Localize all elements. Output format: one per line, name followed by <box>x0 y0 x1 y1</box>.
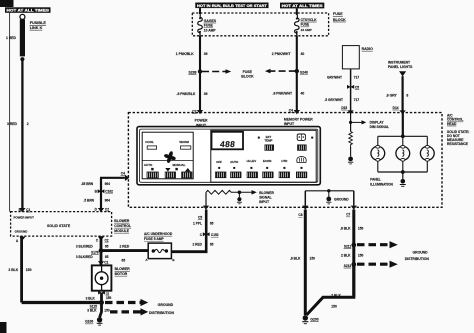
wire label .35 BRN 964 <box>81 182 110 186</box>
svg-text:ILLUMINATION: ILLUMINATION <box>370 183 393 187</box>
svg-text:39: 39 <box>204 92 208 96</box>
svg-text:150: 150 <box>310 256 316 260</box>
svg-text:AUTO: AUTO <box>230 160 239 164</box>
ctsy/clk fuse element <box>295 15 318 36</box>
svg-text:3 BLK: 3 BLK <box>8 268 18 272</box>
svg-text:.35 BRN: .35 BRN <box>81 182 94 186</box>
svg-text:964: 964 <box>105 182 111 186</box>
svg-text:BLOCK: BLOCK <box>333 18 346 22</box>
button defrost <box>296 172 306 178</box>
svg-text:BLOWER: BLOWER <box>259 191 274 195</box>
splice S213 <box>344 262 356 268</box>
svg-text:POWER INPUT: POWER INPUT <box>14 215 35 219</box>
svg-text:FUSE 5 AMP: FUSE 5 AMP <box>144 237 164 241</box>
svg-text:OFF: OFF <box>216 160 222 164</box>
svg-text:D14: D14 <box>393 106 399 110</box>
svg-text:SOLID STATE: SOLID STATE <box>47 224 71 228</box>
svg-text:2: 2 <box>27 122 29 126</box>
fuse block label (top right) <box>333 12 346 22</box>
lamp E3 (right illumination bulb) <box>420 136 434 172</box>
pin A of module (ground) <box>16 237 26 243</box>
fan down triangle <box>165 168 170 172</box>
label A/C UNDERHOOD FUSE 5 AMP <box>144 232 173 241</box>
svg-text:C7: C7 <box>346 213 350 217</box>
pin C8 of A/C control head <box>298 206 308 218</box>
F/C selector icon <box>297 134 305 140</box>
internal ground symbol <box>326 191 331 204</box>
svg-text:RESISTANCE: RESISTANCE <box>447 142 469 146</box>
defrost icon <box>297 157 306 163</box>
svg-text:C4: C4 <box>121 171 125 175</box>
svg-text:2 RED: 2 RED <box>193 242 203 246</box>
wire label .8 GRY 8 <box>386 94 409 98</box>
svg-text:150: 150 <box>106 296 112 300</box>
illumination ground symbol <box>400 172 406 186</box>
svg-text:DISTRIBUTION: DISTRIBUTION <box>149 311 174 315</box>
svg-text:GROUND: GROUND <box>334 198 349 202</box>
svg-text:1 PNK/BLK: 1 PNK/BLK <box>176 52 194 56</box>
wire label .5 BRN 964 <box>84 198 111 202</box>
svg-text:2 PNK/WHT: 2 PNK/WHT <box>272 52 292 56</box>
svg-text:FUSE: FUSE <box>333 12 343 16</box>
connector C5 (radio lead) <box>347 85 359 89</box>
wire: module ground bus horizontal <box>22 301 102 304</box>
illumination top bus wire <box>378 135 428 137</box>
ground distribution arrow 3 <box>357 241 398 248</box>
pin C1 of blower motor <box>98 261 109 266</box>
svg-text:INSTRUMENT: INSTRUMENT <box>388 60 411 64</box>
button htr <box>279 172 289 178</box>
svg-text:FUSE: FUSE <box>243 70 253 74</box>
svg-text:DISPLAY: DISPLAY <box>370 121 385 125</box>
fuse block center text <box>241 70 254 79</box>
button hi-lev <box>247 172 257 178</box>
svg-text:Hi-LEV: Hi-LEV <box>247 159 257 163</box>
wire stub banner3 to fuse block <box>296 8 298 15</box>
svg-text:HOT IN RUN, BULB TEST OR START: HOT IN RUN, BULB TEST OR START <box>197 4 268 8</box>
dim signal resistor <box>349 132 353 147</box>
wire: ctsy fuse down to A/C control head C4 <box>296 36 298 113</box>
svg-text:C5: C5 <box>355 85 359 89</box>
wire label 3 RED circuit 2 <box>7 122 29 126</box>
svg-text:HEAD: HEAD <box>447 122 457 126</box>
svg-text:S211: S211 <box>344 244 351 248</box>
svg-text:65: 65 <box>210 221 214 225</box>
ground G106 <box>85 317 102 325</box>
svg-text:65: 65 <box>105 244 109 248</box>
wire: head C7 down <box>352 210 355 298</box>
svg-text:16 AMP: 16 AMP <box>301 28 312 32</box>
svg-text:MEMORY POWER: MEMORY POWER <box>284 117 313 121</box>
svg-text:.8 BLK: .8 BLK <box>290 256 301 260</box>
wire: head C8 down to G200 <box>304 210 307 316</box>
button econ <box>263 172 273 178</box>
A/C underhood fuse box <box>145 243 175 262</box>
label GROUND DISTRIBUTION (right) <box>405 250 430 261</box>
svg-text:8: 8 <box>406 94 408 98</box>
svg-text:488: 488 <box>220 139 236 149</box>
fusible link K <box>20 14 47 61</box>
blower signal junction node <box>238 191 242 195</box>
svg-text:POWER: POWER <box>195 119 208 123</box>
wire: fuse to C152 riser <box>171 250 207 253</box>
label DISPLAY DIM SIGNAL <box>370 121 389 130</box>
fan control sub-panel <box>142 132 193 179</box>
wire label .5 GRY/WHT 717 <box>325 98 360 102</box>
illumination ground node <box>401 170 405 174</box>
svg-text:.8 PNK/WHT: .8 PNK/WHT <box>273 91 294 95</box>
wire: S115 down to G106 <box>100 303 102 318</box>
svg-text:S238: S238 <box>188 70 196 74</box>
svg-text:GROUND: GROUND <box>413 250 429 254</box>
svg-text:150: 150 <box>358 226 364 230</box>
svg-text:CONTROL: CONTROL <box>114 224 131 228</box>
button fan up <box>182 172 192 178</box>
svg-text:39: 39 <box>204 52 208 56</box>
svg-text:AUTO: AUTO <box>144 163 153 167</box>
svg-text:10 AMP: 10 AMP <box>204 29 217 33</box>
A/C control head dashed box <box>128 113 442 208</box>
svg-text:1 PPL: 1 PPL <box>193 221 202 225</box>
svg-text:65: 65 <box>122 258 126 262</box>
button off <box>216 172 226 178</box>
svg-text:RADIO: RADIO <box>362 47 374 51</box>
splice S238 <box>188 69 202 74</box>
node label POWER INPUT <box>195 119 208 128</box>
fan up triangle <box>185 168 191 172</box>
svg-text:MODULE: MODULE <box>114 229 129 233</box>
splice S240 <box>295 69 308 75</box>
svg-text:D15: D15 <box>341 106 347 110</box>
svg-text:INPUT: INPUT <box>259 200 269 204</box>
pin C7 of A/C control head <box>346 206 357 217</box>
svg-text:HTR: HTR <box>281 159 288 163</box>
svg-text:FUSIBLE: FUSIBLE <box>30 21 47 25</box>
splice S115 <box>90 300 104 309</box>
blower signal arrow <box>252 190 257 195</box>
svg-text:3 BLK: 3 BLK <box>86 297 96 301</box>
svg-text:964: 964 <box>105 198 111 202</box>
wire: fusible link down to module C1 <box>21 61 23 212</box>
wire label 3 BLK/RED 65 (lower) <box>76 255 109 259</box>
svg-text:MOTOR: MOTOR <box>115 272 128 276</box>
svg-text:2 BLK: 2 BLK <box>341 253 351 257</box>
label BLOWER MOTOR <box>115 267 131 276</box>
pin D14 of A/C control head <box>393 106 406 114</box>
label BLOWER CONTROL MODULE <box>114 219 131 233</box>
wire label .8 BLK 150 (left drop) <box>290 256 315 260</box>
svg-text:150: 150 <box>331 305 337 309</box>
auto indicator dot <box>151 168 153 170</box>
svg-text:ECON: ECON <box>263 159 271 163</box>
svg-text:2 BLK: 2 BLK <box>331 294 341 298</box>
label GROUND DISTRIBUTION (left) <box>149 303 174 315</box>
svg-text:C5: C5 <box>198 215 202 219</box>
svg-text:.8 GRY: .8 GRY <box>386 94 398 98</box>
gages fuse element <box>198 14 217 36</box>
connector C162 <box>95 189 114 193</box>
illumination bus node <box>401 134 405 138</box>
blower signal resistor <box>206 190 252 194</box>
wire: gages fuse down to A/C control head C2 <box>199 36 201 113</box>
svg-text:PANEL LIGHTS: PANEL LIGHTS <box>388 65 413 69</box>
svg-text:GROUND: GROUND <box>15 229 28 233</box>
arrow to fuse block text <box>202 69 231 74</box>
svg-text:GRY/WHT: GRY/WHT <box>327 75 342 79</box>
ground G200 <box>302 315 319 323</box>
svg-text:.5 GRY/WHT: .5 GRY/WHT <box>325 98 344 102</box>
button auto mode <box>231 172 241 178</box>
lamp E2 (center illumination bulb) <box>396 136 410 172</box>
svg-text:BLOWER: BLOWER <box>114 219 130 223</box>
svg-text:1 RED: 1 RED <box>6 36 17 40</box>
internal ground node <box>327 189 330 192</box>
svg-text:HOT AT ALL TIMES: HOT AT ALL TIMES <box>7 8 50 13</box>
svg-text:150: 150 <box>104 309 110 313</box>
svg-text:C1: C1 <box>104 261 108 265</box>
fan icon <box>164 151 177 164</box>
svg-text:C2: C2 <box>106 292 110 296</box>
pin D C2 of blower control module <box>95 208 110 212</box>
node label MEMORY POWER INPUT <box>284 117 313 126</box>
svg-text:PANEL: PANEL <box>370 177 381 181</box>
splice S178 <box>91 248 103 254</box>
blower signal internal wire <box>205 192 207 206</box>
wire: panel lights to A/C control head D14 <box>402 76 404 112</box>
wire label 3 BLK/RED 65 <box>76 244 109 248</box>
wire label 1 PNK/BLK 39 <box>176 52 208 56</box>
indicator dot left <box>258 137 260 139</box>
internal ground bus left drop <box>304 191 306 206</box>
wire: S178 to underhood fuse <box>101 249 148 252</box>
button auto <box>147 172 158 178</box>
svg-text:3 BLK: 3 BLK <box>87 309 97 313</box>
seven segment display <box>212 132 244 150</box>
svg-text:LINK K: LINK K <box>30 26 43 30</box>
button ext temp <box>265 145 274 150</box>
svg-text:SIGNAL: SIGNAL <box>259 196 271 200</box>
svg-text:65: 65 <box>210 242 214 246</box>
svg-text:.8 PNK/BLK: .8 PNK/BLK <box>177 92 196 96</box>
dim signal junction node <box>349 121 352 124</box>
arrow from S240 to fuse block text <box>265 69 296 74</box>
svg-text:3 BLK/RED: 3 BLK/RED <box>76 244 94 248</box>
svg-text:2 RED: 2 RED <box>120 245 130 249</box>
svg-text:S240: S240 <box>300 71 308 75</box>
svg-text:150: 150 <box>26 268 32 272</box>
wire label 3 BLK 150 (left) <box>8 268 31 272</box>
indicator dot right <box>311 137 313 139</box>
connector C2 below motor <box>98 291 109 296</box>
ground distribution arrow 1 <box>105 299 148 306</box>
wire label 1 PPL 65 <box>193 221 214 225</box>
svg-text:.5 BRN: .5 BRN <box>84 198 95 202</box>
wire: head C4 horizontal to riser <box>100 177 125 179</box>
svg-text:717: 717 <box>354 98 360 102</box>
wire label 3 BLK 150 (below S115) <box>87 309 110 313</box>
svg-text:G200: G200 <box>310 317 318 321</box>
connector C152 <box>200 232 219 237</box>
splice S211 <box>344 243 356 249</box>
label EXT TEMP <box>264 135 272 143</box>
svg-text:C4: C4 <box>289 108 293 112</box>
pin C5 of A/C control head <box>198 206 209 220</box>
svg-text:S213: S213 <box>344 264 352 268</box>
illumination bottom bus wire <box>378 171 428 173</box>
wire label .8 PNK/BLK 39 <box>177 92 208 96</box>
svg-text:A/C UNDERHOOD: A/C UNDERHOOD <box>144 232 173 236</box>
svg-text:.8 BLK: .8 BLK <box>340 226 351 230</box>
svg-text:C8: C8 <box>298 213 302 217</box>
pin C2 of A/C control head <box>192 109 203 114</box>
svg-text:G106: G106 <box>85 320 93 324</box>
wire: riser down to module C2 <box>100 178 102 212</box>
wire label 2 RED 65 (right of fuse) <box>193 242 214 246</box>
scan artifact page edge line <box>9 12 11 212</box>
wire: radio to A/C control head D15 <box>350 69 352 113</box>
wire: module A ground down <box>20 236 23 302</box>
wire: S213 down and left to G200 <box>307 264 354 315</box>
wire label 3 BLK 150 (motor ground) <box>86 296 112 300</box>
A/C control head name text <box>447 114 469 147</box>
blower signal internal ground <box>237 192 242 204</box>
svg-text:150: 150 <box>358 253 364 257</box>
svg-text:INPUT: INPUT <box>284 122 295 126</box>
wire: module C down to motor <box>100 236 103 265</box>
pin C C2 of module (motor feed) <box>96 237 109 243</box>
svg-text:TEMP: TEMP <box>264 139 272 143</box>
blower motor box <box>92 265 112 290</box>
wire: riser up to head C5 <box>205 210 208 253</box>
svg-text:GROUND: GROUND <box>158 303 174 307</box>
button fan down <box>165 172 175 178</box>
mode indicator dots <box>218 167 302 169</box>
svg-text:DISTRIBUTION: DISTRIBUTION <box>405 257 430 261</box>
svg-text:FUSE: FUSE <box>301 23 310 27</box>
svg-text:40: 40 <box>301 91 305 95</box>
svg-text:C162: C162 <box>105 190 113 194</box>
svg-text:HOT AT ALL TIMES: HOT AT ALL TIMES <box>282 4 324 8</box>
ground distribution arrow 4 <box>357 261 398 268</box>
wire stub banner2 to fuse block <box>199 8 201 14</box>
button F/C <box>298 145 307 150</box>
svg-text:WARM: WARM <box>179 140 189 144</box>
feed banner HOT AT ALL TIMES (right) <box>280 3 324 9</box>
control panel faceplate inner border <box>140 129 318 182</box>
svg-text:BLOCK: BLOCK <box>241 75 254 79</box>
dim signal ground dot <box>348 157 353 164</box>
svg-text:3 BLK/RED: 3 BLK/RED <box>76 255 94 259</box>
pin C4 of A/C control head <box>289 108 300 114</box>
wire label .8 PNK/WHT 40 <box>273 91 305 95</box>
wire label 2 BLK 150 <box>341 253 364 257</box>
control panel faceplate outer border <box>137 127 320 185</box>
svg-text:S178: S178 <box>91 250 99 254</box>
dim signal internal wire <box>350 113 352 132</box>
pin D15 of A/C control head <box>341 106 353 114</box>
wire label GRY/WHT 717 <box>327 75 359 79</box>
svg-text:DIM SIGNAL: DIM SIGNAL <box>370 125 389 129</box>
svg-text:CTSY/CLK: CTSY/CLK <box>301 18 318 22</box>
svg-text:C2: C2 <box>105 239 109 243</box>
wire: motor to ground junction <box>100 293 103 303</box>
dim signal arrow <box>352 120 366 124</box>
warm indicator window <box>181 146 191 149</box>
internal ground bus right drop <box>353 191 355 206</box>
feed banner HOT AT ALL TIMES (left) <box>5 7 51 13</box>
pin B C1 of blower control module <box>19 208 31 212</box>
ground distribution arrow 2 <box>110 308 148 315</box>
wire label 2 PNK/WHT 40 <box>272 52 305 56</box>
scan artifact corner mark <box>0 0 14 7</box>
illumination feed wire <box>402 113 404 137</box>
wire label .8 BLK 150 (right drop) <box>340 226 364 230</box>
svg-text:40: 40 <box>301 52 305 56</box>
pin C4 of A/C control head (left edge) <box>121 171 130 181</box>
label PANEL ILLUMINATION <box>370 177 393 186</box>
feed banner HOT IN RUN, BULB TEST OR START <box>195 3 268 9</box>
svg-text:3 RED: 3 RED <box>7 122 18 126</box>
label BLOWER SIGNAL INPUT <box>259 191 274 204</box>
svg-text:FUSE: FUSE <box>204 24 214 28</box>
blower control module dashed box <box>11 212 112 237</box>
manual indicator dot <box>175 168 177 170</box>
instrument panel lights feed <box>388 60 413 76</box>
lamp E1 (left illumination bulb) <box>371 136 385 172</box>
svg-text:717: 717 <box>354 75 360 79</box>
dim signal wire to ground <box>350 147 352 157</box>
scan artifact bottom-left blob <box>0 322 7 333</box>
fan sub-panel divider <box>142 159 193 161</box>
radio box <box>342 46 373 69</box>
temperature sub-panel <box>211 130 316 182</box>
svg-text:MANUAL: MANUAL <box>173 163 186 167</box>
fuse block dashed box <box>192 13 328 36</box>
svg-text:GAGES: GAGES <box>204 19 217 23</box>
svg-text:C152: C152 <box>211 233 219 237</box>
internal ground bus wire <box>305 190 354 192</box>
cool indicator window <box>147 146 156 149</box>
svg-text:BLOWER: BLOWER <box>115 267 131 271</box>
svg-text:65: 65 <box>105 255 109 259</box>
svg-text:COOL: COOL <box>145 140 154 144</box>
